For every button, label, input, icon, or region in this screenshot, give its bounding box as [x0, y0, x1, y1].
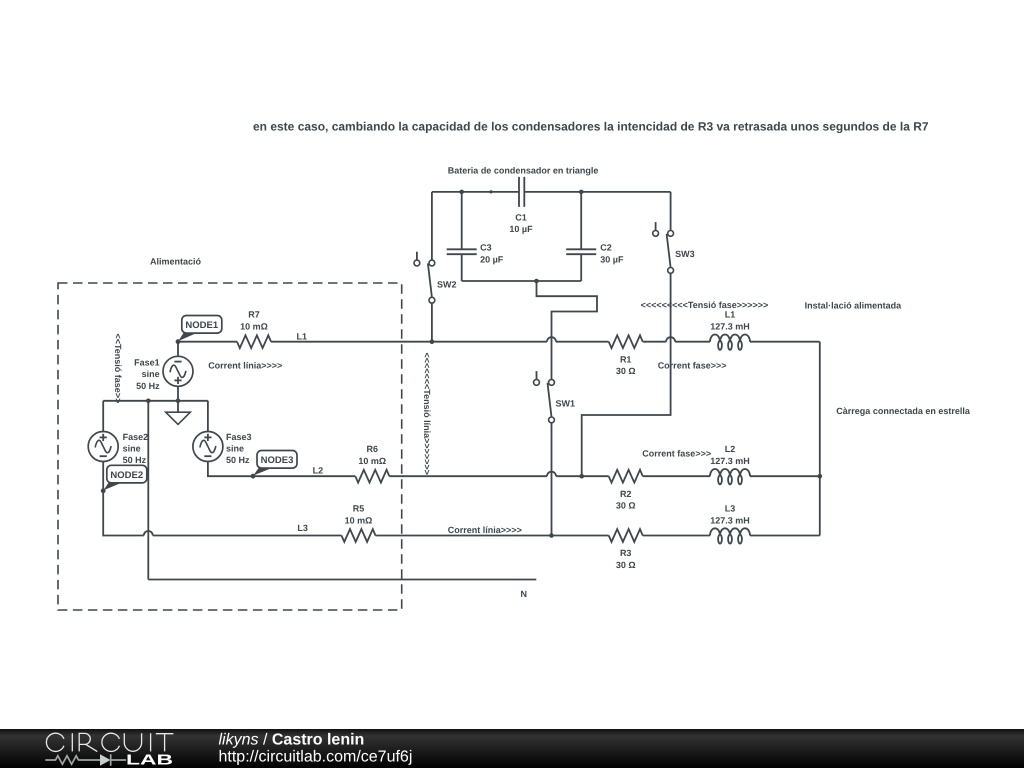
svg-text:Corrent línia>>>>: Corrent línia>>>> — [448, 525, 522, 535]
svg-text:sine: sine — [226, 443, 244, 453]
svg-text:L1: L1 — [725, 310, 736, 320]
svg-text:R6: R6 — [367, 444, 379, 454]
svg-text:SW3: SW3 — [675, 249, 695, 259]
svg-text:R7: R7 — [248, 310, 260, 320]
svg-text:Fase3: Fase3 — [226, 432, 252, 442]
svg-text:NODE1: NODE1 — [185, 320, 218, 331]
svg-text:NODE3: NODE3 — [261, 455, 294, 466]
svg-text:C1: C1 — [515, 212, 527, 222]
svg-text:20 µF: 20 µF — [480, 254, 504, 264]
svg-text:L2: L2 — [725, 444, 736, 454]
svg-text:N: N — [521, 589, 528, 599]
svg-text:<<Tensió fase>>: <<Tensió fase>> — [113, 333, 123, 403]
svg-text:Bateria de condensador en tria: Bateria de condensador en triangle — [448, 166, 599, 176]
svg-text:R2: R2 — [620, 489, 632, 499]
svg-text:SW1: SW1 — [556, 398, 576, 408]
svg-text:127.3 mH: 127.3 mH — [710, 515, 750, 525]
svg-text:R3: R3 — [620, 548, 632, 558]
svg-text:<<<<<<<Tensió línia>>>>>>>: <<<<<<<Tensió línia>>>>>>> — [422, 352, 432, 474]
svg-text:sine: sine — [123, 443, 141, 453]
svg-text:L1: L1 — [297, 332, 308, 342]
svg-text:30 µF: 30 µF — [600, 254, 624, 264]
svg-text:50 Hz: 50 Hz — [226, 455, 250, 465]
svg-text:10 µF: 10 µF — [509, 224, 533, 234]
svg-text:SW2: SW2 — [437, 279, 457, 289]
svg-text:Càrrega connectada en estrella: Càrrega connectada en estrella — [836, 406, 971, 416]
svg-text:<<<<<<<<<Tensió fase>>>>>>: <<<<<<<<<Tensió fase>>>>>> — [641, 300, 769, 310]
svg-text:sine: sine — [142, 369, 160, 379]
svg-text:Fase2: Fase2 — [123, 432, 149, 442]
svg-text:L3: L3 — [725, 503, 736, 513]
svg-text:Instal·lació alimentada: Instal·lació alimentada — [805, 300, 903, 310]
svg-text:L3: L3 — [297, 523, 308, 533]
svg-text:likyns / Castro lenin: likyns / Castro lenin — [219, 731, 365, 748]
svg-text:Fase1: Fase1 — [134, 357, 160, 367]
svg-text:NODE2: NODE2 — [110, 470, 143, 481]
svg-text:10 mΩ: 10 mΩ — [358, 456, 386, 466]
svg-text:R1: R1 — [620, 354, 632, 364]
svg-text:R5: R5 — [353, 503, 365, 513]
svg-text:http://circuitlab.com/ce7uf6j: http://circuitlab.com/ce7uf6j — [219, 749, 413, 766]
svg-text:10 mΩ: 10 mΩ — [240, 322, 268, 332]
svg-text:50 Hz: 50 Hz — [123, 455, 147, 465]
svg-text:127.3 mH: 127.3 mH — [710, 322, 750, 332]
svg-text:50 Hz: 50 Hz — [136, 381, 160, 391]
svg-text:C2: C2 — [600, 243, 612, 253]
svg-text:30 Ω: 30 Ω — [616, 560, 636, 570]
svg-text:Alimentació: Alimentació — [150, 256, 202, 266]
svg-text:10 mΩ: 10 mΩ — [345, 515, 373, 525]
svg-text:en este caso, cambiando la cap: en este caso, cambiando la capacidad de … — [253, 119, 929, 133]
svg-text:30 Ω: 30 Ω — [616, 501, 636, 511]
svg-text:Corrent fase>>>: Corrent fase>>> — [642, 449, 711, 459]
svg-text:Corrent fase>>>: Corrent fase>>> — [658, 360, 727, 370]
svg-text:C3: C3 — [480, 243, 492, 253]
svg-text:127.3 mH: 127.3 mH — [710, 456, 750, 466]
svg-text:Corrent línia>>>>: Corrent línia>>>> — [208, 360, 282, 370]
svg-text:30 Ω: 30 Ω — [616, 366, 636, 376]
svg-text:LAB: LAB — [126, 753, 173, 768]
svg-text:L2: L2 — [313, 465, 324, 475]
